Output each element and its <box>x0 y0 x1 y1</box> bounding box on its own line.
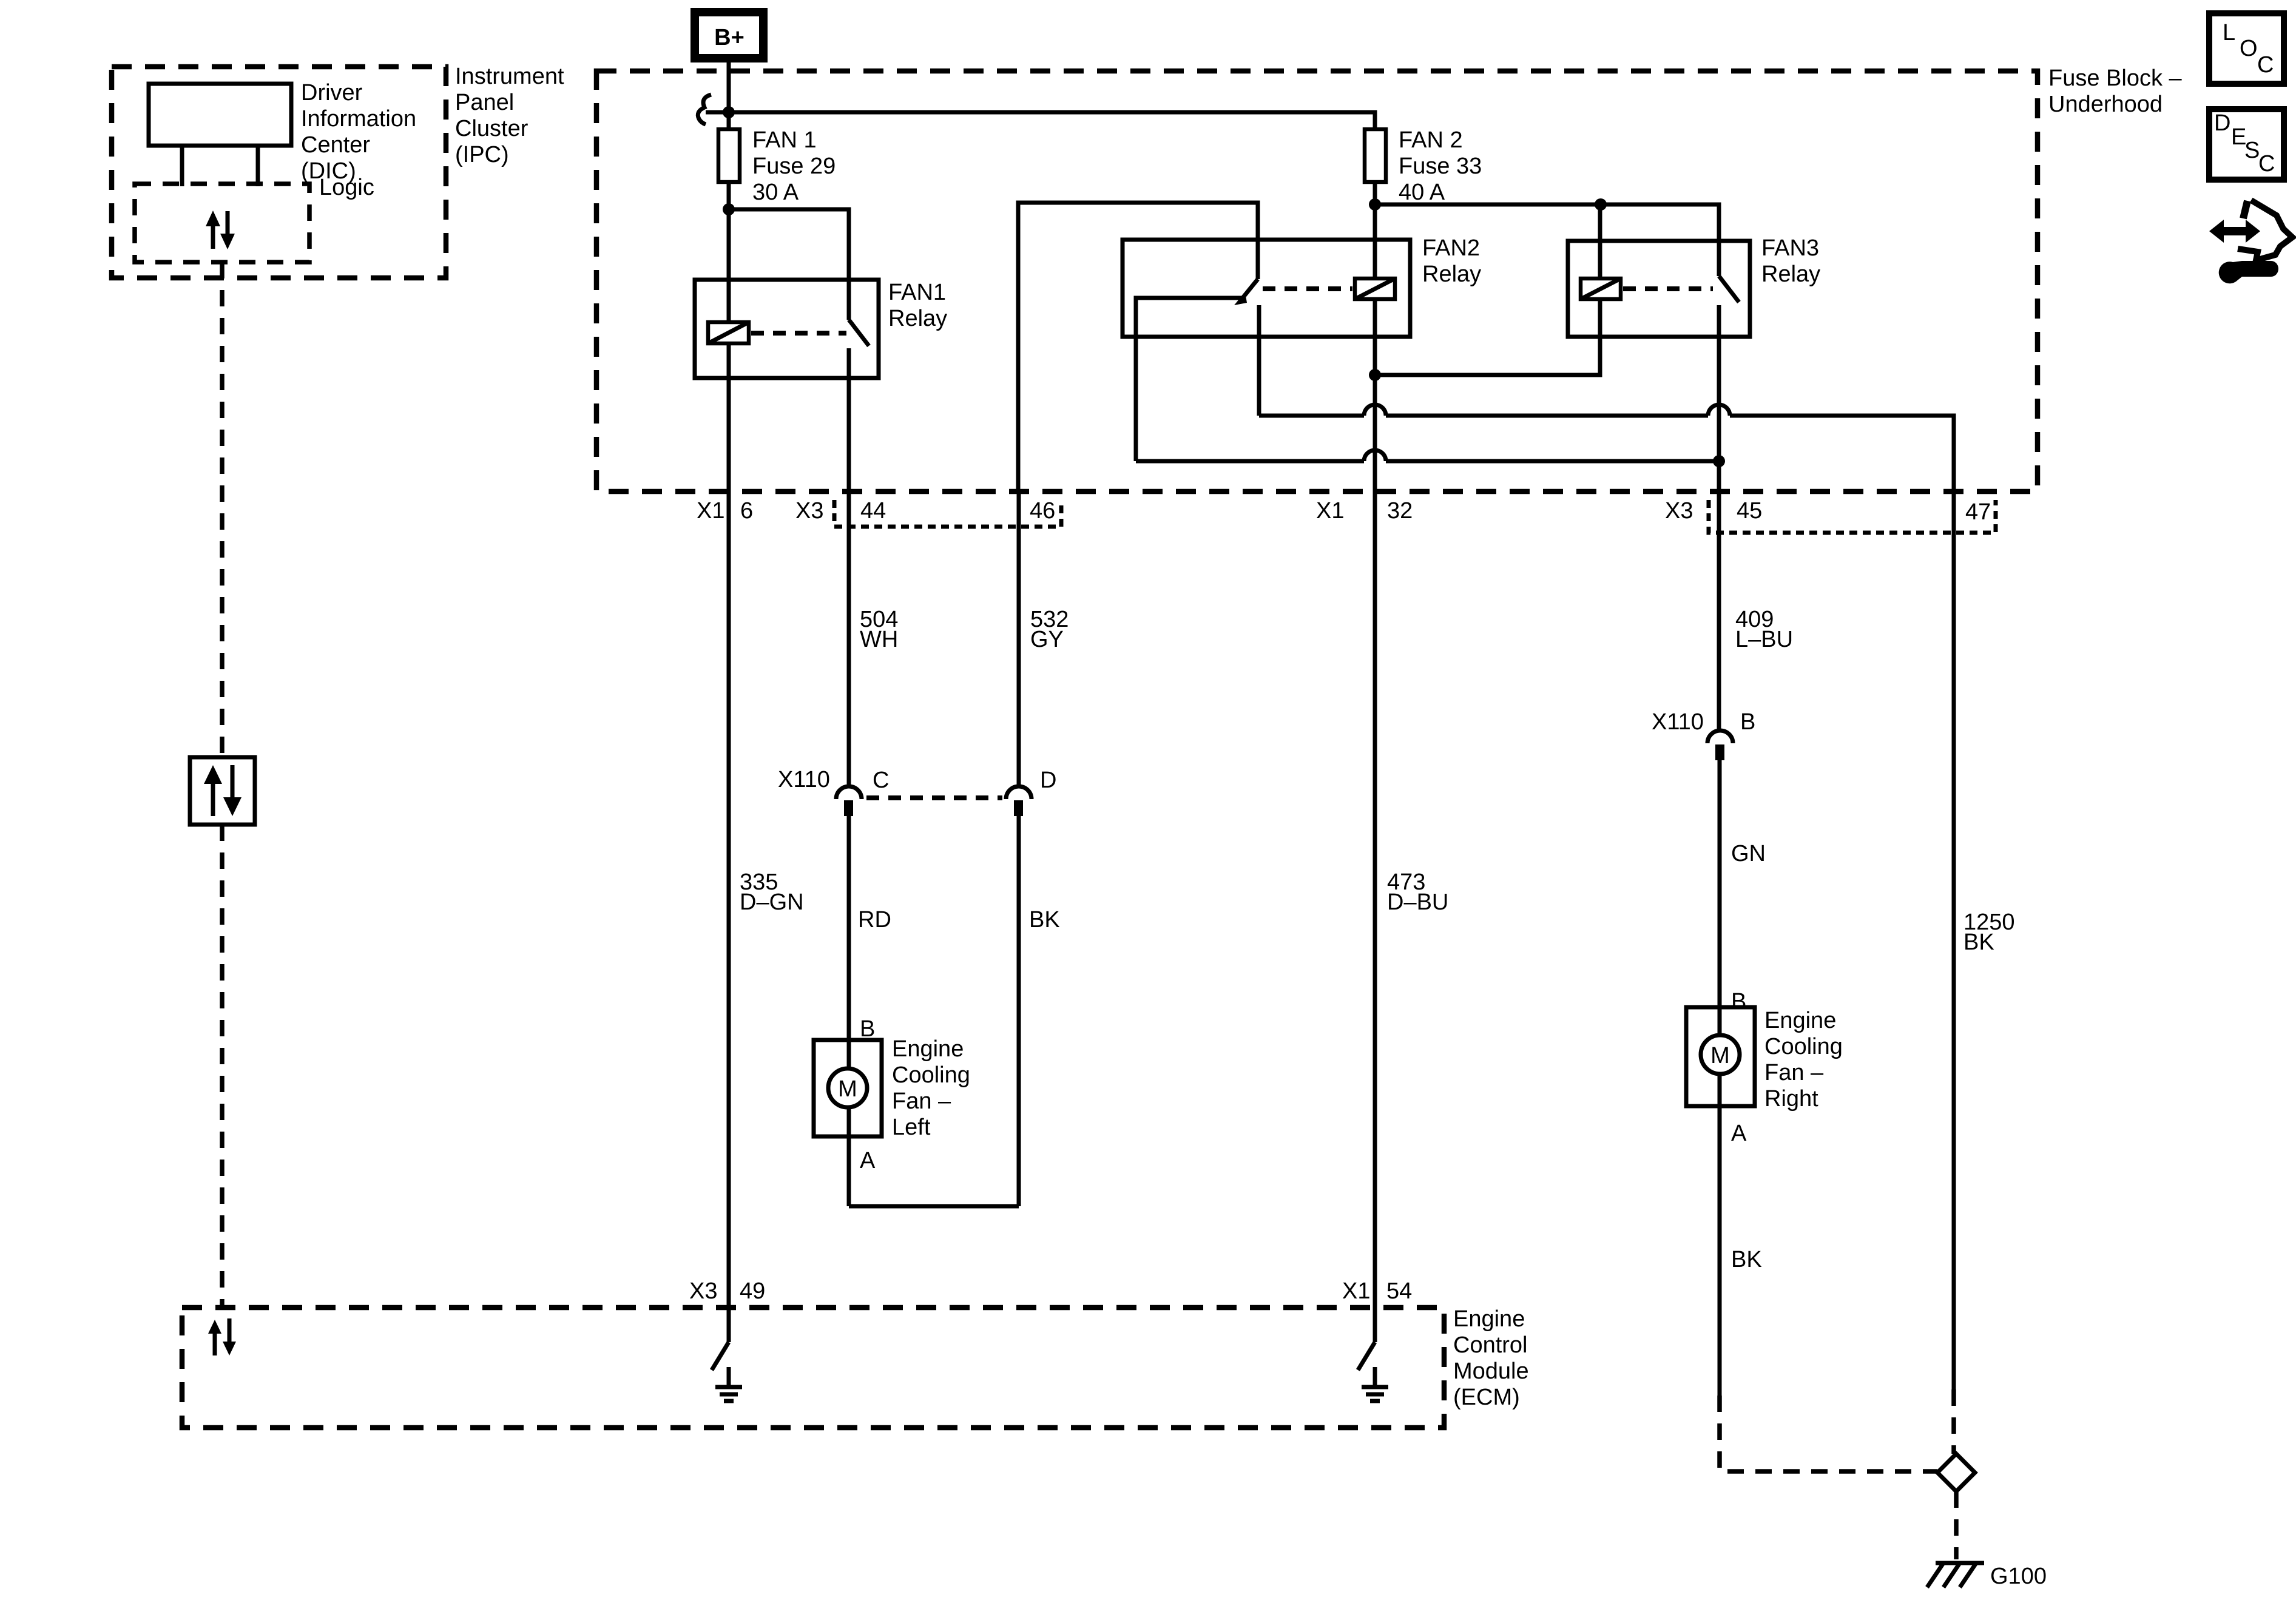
FAN2 relay switch blade <box>1240 279 1258 302</box>
svg-text:Panel: Panel <box>455 90 514 115</box>
svg-text:M: M <box>838 1076 857 1102</box>
ECM low side driver switch (fan 2) <box>1358 1342 1375 1370</box>
svg-text:WH: WH <box>860 627 898 652</box>
svg-text:Cluster: Cluster <box>455 116 528 141</box>
svg-text:6: 6 <box>740 498 753 524</box>
FAN2 Relay box <box>1123 240 1410 337</box>
Engine Control Module (ECM) box <box>182 1308 1444 1428</box>
svg-text:B+: B+ <box>714 25 745 50</box>
svg-text:A: A <box>1731 1121 1747 1146</box>
svg-text:B: B <box>860 1016 875 1042</box>
svg-text:Relay: Relay <box>1761 262 1820 287</box>
wire splice to G100 (dashed) <box>1954 1491 1959 1559</box>
Driver Information Center (DIC) <box>149 84 291 146</box>
wire FAN3 switch output (409 circuit) <box>1717 305 1721 731</box>
connector X110 C-D body (dashed) <box>866 795 1002 800</box>
ground G100 <box>1927 1563 1984 1587</box>
wire FAN3 coil feed <box>1598 204 1602 279</box>
wire GN to right fan motor <box>1718 760 1722 1396</box>
svg-text:C: C <box>2257 52 2274 78</box>
ECM low side driver switch (fan 1) <box>712 1342 729 1370</box>
wire 532 GY (pin 46 to X110 D) <box>1017 491 1021 787</box>
FAN2 switch NC contact line <box>1136 298 1243 461</box>
junction B+ bus <box>723 106 735 118</box>
svg-text:Control: Control <box>1453 1332 1528 1358</box>
svg-text:Underhood: Underhood <box>2048 92 2163 117</box>
wire 46 circuit to FAN2 switch common <box>1018 203 1258 491</box>
connector X110 terminal D <box>1006 786 1032 799</box>
Engine Cooling Fan - Right motor <box>1686 1007 1755 1106</box>
svg-text:M: M <box>1710 1043 1730 1068</box>
ECM ground (fan 2) <box>1362 1367 1388 1401</box>
data exchange / tool icon <box>2209 200 2292 283</box>
svg-text:D–GN: D–GN <box>740 890 804 915</box>
ECM serial data down arrow <box>223 1318 236 1355</box>
logic serial data down arrow <box>220 211 235 249</box>
FAN1 relay switch blade <box>849 320 869 346</box>
svg-text:B: B <box>1740 709 1755 735</box>
svg-text:(ECM): (ECM) <box>1453 1385 1520 1410</box>
svg-text:L: L <box>2223 20 2235 46</box>
DESC icon <box>2209 109 2284 180</box>
svg-text:30 A: 30 A <box>752 180 799 205</box>
wire DIC leg right <box>256 146 260 186</box>
FAN2 relay coil <box>1355 279 1395 299</box>
svg-text:D–BU: D–BU <box>1387 890 1448 915</box>
FAN3 relay coil <box>1581 279 1621 299</box>
wire RD to left fan motor <box>847 816 851 1206</box>
wire B+ feed (x=1201) <box>727 58 731 1342</box>
svg-text:Relay: Relay <box>1422 262 1481 287</box>
connector X110 terminal B <box>1707 731 1733 743</box>
logic serial data up arrow <box>206 211 220 249</box>
svg-text:Logic: Logic <box>319 175 374 200</box>
svg-text:Fan –: Fan – <box>892 1089 951 1114</box>
svg-text:B: B <box>1731 989 1746 1014</box>
ECM ground (fan 1) <box>715 1367 742 1401</box>
FAN1 relay coil-switch link <box>751 331 846 336</box>
FAN2 switch output wire <box>1257 305 1261 416</box>
svg-text:FAN3: FAN3 <box>1761 235 1819 261</box>
svg-text:X110: X110 <box>1652 709 1704 735</box>
svg-text:47: 47 <box>1965 499 1991 525</box>
FAN3 Relay box <box>1568 241 1750 337</box>
wire left fan A to BK return <box>849 1204 1019 1209</box>
wire bus to FAN 2 fuse <box>729 112 1375 129</box>
wire right fan BK to splice (dashed) <box>1720 1396 1937 1471</box>
svg-text:Cooling: Cooling <box>1764 1034 1843 1059</box>
FAN3 relay coil-switch link <box>1623 286 1713 291</box>
svg-text:FAN 2: FAN 2 <box>1399 127 1463 153</box>
svg-text:X1: X1 <box>1316 498 1344 524</box>
FAN1 relay coil <box>708 322 749 343</box>
connector X3 bracket (pins 45-47) <box>1709 500 1996 533</box>
svg-text:46: 46 <box>1030 498 1055 524</box>
wire DIC leg left <box>180 146 184 186</box>
wire 1250 BK feed (FAN2 output to pin 47) with hops <box>1259 405 1954 1389</box>
junction fuse 33 output <box>1369 198 1381 211</box>
svg-text:FAN2: FAN2 <box>1422 235 1480 261</box>
svg-text:S: S <box>2244 138 2260 163</box>
svg-text:C: C <box>2258 151 2275 177</box>
svg-text:X1: X1 <box>697 498 724 524</box>
wire FAN1 switch output (504 circuit upper) <box>847 348 851 787</box>
svg-text:49: 49 <box>740 1278 765 1304</box>
FAN3 relay switch blade <box>1719 276 1739 302</box>
interface down arrow <box>223 765 241 816</box>
svg-text:32: 32 <box>1387 498 1413 524</box>
Instrument Panel Cluster (IPC) box <box>112 67 446 278</box>
svg-text:Center: Center <box>301 132 370 158</box>
svg-text:45: 45 <box>1737 498 1762 524</box>
wire FAN3 coil low side to FAN2 coil low side <box>1375 299 1600 375</box>
FAN1 Relay box <box>695 280 879 378</box>
svg-text:A: A <box>860 1148 876 1173</box>
svg-text:Fan –: Fan – <box>1764 1060 1824 1085</box>
junction below fuse 29 <box>723 203 735 215</box>
junction coil low side <box>1369 369 1381 381</box>
svg-text:40 A: 40 A <box>1399 180 1445 205</box>
serial data interface box <box>190 757 255 825</box>
junction coil bus at FAN3 coil <box>1595 198 1607 211</box>
Fuse Block - Underhood box <box>596 71 2038 491</box>
svg-text:X1: X1 <box>1342 1278 1370 1304</box>
svg-text:RD: RD <box>858 907 891 933</box>
svg-text:X3: X3 <box>795 498 823 524</box>
wire fuse33 to relay coils bus <box>1375 204 1719 276</box>
svg-text:O: O <box>2240 36 2258 61</box>
svg-text:54: 54 <box>1386 1278 1412 1304</box>
bus curl at B+ junction <box>698 95 711 124</box>
wire serial data (IPC to ECM, dashed) upper <box>220 262 225 757</box>
svg-text:Left: Left <box>892 1115 931 1140</box>
svg-text:BK: BK <box>1963 930 1994 955</box>
svg-text:Instrument: Instrument <box>455 64 564 89</box>
Engine Cooling Fan - Left motor <box>814 1040 882 1136</box>
FAN2 relay coil-switch link <box>1263 286 1352 291</box>
svg-text:X3: X3 <box>1665 498 1693 524</box>
svg-text:C: C <box>873 768 889 793</box>
svg-text:Engine: Engine <box>1764 1008 1836 1033</box>
svg-text:Information: Information <box>301 106 416 132</box>
B+ power symbol <box>695 12 763 58</box>
fuse FAN 2 Fuse 33 40 A <box>1365 129 1386 182</box>
LOC icon <box>2209 13 2284 84</box>
svg-text:Module: Module <box>1453 1359 1529 1384</box>
svg-text:FAN 1: FAN 1 <box>752 127 817 153</box>
wire 1250 BK to splice (dashed) <box>1951 1389 1956 1454</box>
interface up arrow <box>204 765 222 816</box>
wire 473 D-BU feed (x=2266) <box>1373 180 1377 1342</box>
svg-text:G100: G100 <box>1990 1564 2047 1589</box>
svg-text:(IPC): (IPC) <box>455 142 509 167</box>
svg-text:FAN1: FAN1 <box>888 280 946 305</box>
wire FAN2 NC to FAN3 output with hop <box>1136 450 1719 461</box>
svg-text:Driver: Driver <box>301 80 363 106</box>
wire serial data (IPC to ECM, dashed) lower <box>220 825 225 1308</box>
svg-text:X3: X3 <box>689 1278 717 1304</box>
svg-text:L–BU: L–BU <box>1735 627 1793 652</box>
wire BK left fan return <box>1017 816 1021 1206</box>
svg-text:Right: Right <box>1764 1086 1818 1112</box>
svg-text:44: 44 <box>860 498 886 524</box>
svg-text:BK: BK <box>1029 907 1060 933</box>
svg-text:Fuse 29: Fuse 29 <box>752 154 836 179</box>
svg-text:Fuse 33: Fuse 33 <box>1399 154 1482 179</box>
svg-text:Fuse Block –: Fuse Block – <box>2048 66 2183 91</box>
svg-text:D: D <box>2214 110 2230 136</box>
svg-text:Cooling: Cooling <box>892 1062 970 1088</box>
junction 409 circuit <box>1713 455 1725 467</box>
svg-text:Relay: Relay <box>888 306 947 331</box>
svg-text:D: D <box>1040 768 1056 793</box>
svg-text:GY: GY <box>1030 627 1064 652</box>
connector X110 terminal C <box>836 786 862 799</box>
svg-text:Engine: Engine <box>1453 1306 1525 1332</box>
ECM serial data up arrow <box>208 1320 221 1355</box>
svg-text:BK: BK <box>1731 1247 1762 1272</box>
svg-text:Engine: Engine <box>892 1036 964 1062</box>
splice S-node diamond <box>1937 1454 1975 1491</box>
svg-text:GN: GN <box>1731 841 1766 866</box>
Logic block <box>135 184 309 262</box>
svg-text:X110: X110 <box>778 767 830 792</box>
fuse FAN 1 Fuse 29 30 A <box>718 129 740 182</box>
wire to FAN1 relay switch <box>729 209 849 320</box>
connector X3 bracket (pins 44-46) <box>834 500 1061 527</box>
